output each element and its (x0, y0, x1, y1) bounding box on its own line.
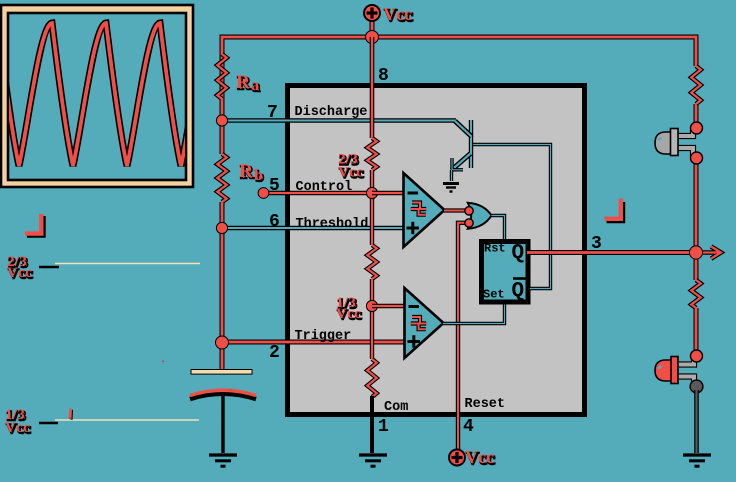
divider resistor R3 (367, 359, 376, 397)
comparator A output wire to gate (444, 208, 467, 212)
pin 5 Control wire (264, 191, 372, 195)
pin 1 Com wire (370, 396, 374, 453)
node pin 7 (216, 115, 227, 126)
node 2/3 Vcc divider (366, 187, 377, 198)
node at Vcc bus (366, 31, 379, 44)
pin 6 Threshold wire (222, 226, 404, 231)
reset wire from pin 4 up to gate (458, 223, 468, 449)
svg-text:2: 2 (269, 343, 280, 363)
svg-text:7: 7 (267, 103, 278, 123)
Vcc supply symbol bottom (pin 4) (449, 447, 495, 468)
top Vcc bus wire (222, 37, 696, 122)
svg-text:5: 5 (269, 176, 280, 196)
resistor RL2 (691, 280, 700, 308)
right rail wire upper (694, 104, 699, 128)
oscilloscope waveform box frame (1, 5, 193, 187)
svg-text:a: a (251, 77, 259, 94)
pin 2 Trigger wire (222, 340, 405, 345)
svg-text:Com: Com (384, 400, 408, 415)
comparator B output wire to flip-flop Set (443, 303, 505, 324)
gate input dot lower (465, 219, 473, 227)
node LED2 cathode (gray) (690, 380, 703, 393)
label 1/3 Vcc internal (336, 295, 362, 323)
Vcc supply symbol top (364, 4, 413, 38)
svg-text:Vcc: Vcc (465, 447, 494, 467)
corner symbol left (25, 214, 44, 236)
pin 8 Vcc wire into IC (370, 37, 375, 138)
svg-text:R: R (236, 72, 250, 93)
2/3 Vcc level label (7, 254, 200, 282)
trigger tick mark (69, 408, 74, 420)
pin 3 output wire (527, 250, 696, 255)
hysteresis glyph comparator A (411, 203, 426, 215)
OR gate U3 (468, 203, 492, 229)
resistor Ra (217, 54, 226, 99)
svg-text:8: 8 (378, 66, 389, 86)
svg-text:b: b (254, 167, 263, 184)
comparator A (threshold) op-amp U1 (404, 173, 445, 247)
label Rb (239, 161, 264, 185)
left wire Rb down to trigger node and capacitor (220, 202, 225, 371)
Qbar wire to transistor base (472, 145, 551, 289)
node pin 3 output (689, 246, 702, 259)
wire LED2 to ground (694, 390, 699, 453)
svg-text:Control: Control (296, 180, 353, 195)
node pin 2 junction (216, 336, 229, 349)
svg-text:Vcc: Vcc (7, 265, 32, 281)
ground below pin 1 (359, 455, 387, 466)
svg-text:Reset: Reset (465, 397, 506, 412)
capacitor C top plate (191, 370, 252, 375)
svg-text:3: 3 (591, 234, 602, 254)
svg-text:6: 6 (269, 212, 280, 232)
divider resistor R1 (367, 138, 376, 170)
555 IC body (288, 86, 585, 415)
1/3 Vcc level label (5, 407, 199, 437)
gate output wire to flip-flop Rst (492, 216, 505, 243)
divider resistor R2 (367, 245, 376, 279)
svg-text:Q: Q (512, 242, 525, 265)
svg-text:Threshold: Threshold (296, 217, 369, 232)
capacitor voltage waveform trace (0, 23, 214, 166)
capacitor C bottom plate (curved) (190, 390, 256, 399)
left wire Ra to Rb (220, 99, 225, 154)
pin 7 Discharge wire (222, 118, 456, 123)
output arrow (703, 247, 721, 259)
comparator B (trigger) op-amp U2 (405, 288, 444, 358)
resistor Rb (217, 154, 226, 202)
divider wire R2 to R3 (370, 279, 374, 359)
label Ra (236, 72, 260, 95)
right rail wire LED1 to output node (694, 158, 699, 280)
node 1/3 Vcc divider (366, 300, 377, 311)
flip-flop U4 (482, 242, 529, 304)
capacitor bottom lead (221, 394, 224, 453)
divider to comparator A minus wire (372, 191, 404, 195)
transistor Q1 (discharge) (452, 120, 472, 181)
svg-text:Vcc: Vcc (338, 165, 363, 181)
node LED1 anode (691, 122, 703, 134)
label 2/3 Vcc internal (338, 152, 364, 182)
LED D1 (off) (655, 129, 693, 158)
svg-text:Vcc: Vcc (5, 420, 30, 436)
svg-text:R: R (239, 161, 253, 182)
pin 5 terminal dot (258, 188, 269, 199)
LED D2 (lit) (655, 357, 694, 387)
svg-text:Trigger: Trigger (295, 329, 352, 344)
svg-text:Vcc: Vcc (336, 306, 361, 322)
node LED1 cathode (691, 152, 703, 164)
resistor RL1 (691, 66, 700, 104)
svg-text:Q: Q (512, 280, 525, 303)
svg-text:Discharge: Discharge (295, 105, 368, 120)
svg-text:Vcc: Vcc (383, 4, 412, 24)
internal ground (emitter) (443, 184, 459, 192)
divider to comparator B minus wire (372, 304, 405, 308)
divider wire R1 to R2 (370, 170, 374, 245)
node pin 6 (216, 222, 227, 233)
gate input dot upper (465, 207, 473, 215)
svg-text:4: 4 (463, 417, 474, 437)
svg-text:1: 1 (378, 417, 389, 437)
stray dot (162, 361, 164, 363)
svg-text:Set: Set (483, 288, 505, 302)
svg-text:Rst: Rst (484, 242, 506, 256)
corner symbol right (605, 199, 624, 222)
ground below capacitor (209, 455, 237, 466)
hysteresis glyph comparator B (411, 317, 426, 329)
ground right rail (683, 455, 711, 466)
right rail wire RL2 to LED2 (694, 308, 699, 356)
node LED2 anode (691, 350, 703, 362)
